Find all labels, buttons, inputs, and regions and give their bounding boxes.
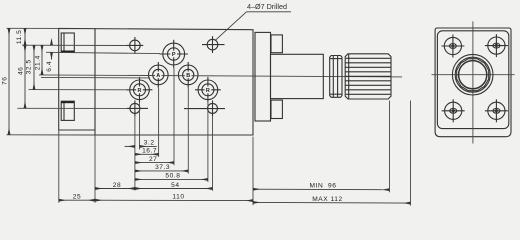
- dim 37.3: [135, 170, 188, 172]
- hole top-right: [202, 36, 225, 53]
- ext knob min: [389, 101, 391, 193]
- top edge ext to left: [7, 27, 59, 29]
- dim 6.4 arrows outside: [51, 40, 53, 45]
- bottom edge ext: [7, 134, 96, 136]
- svg-text:R: R: [138, 88, 142, 94]
- svg-text:28: 28: [113, 182, 121, 189]
- svg-text:76: 76: [2, 77, 9, 85]
- top tab: [271, 35, 282, 53]
- flange inner: [437, 31, 508, 129]
- label 4-dia7 drilled: [215, 2, 291, 41]
- ext line R row: [29, 89, 130, 91]
- vertical centerline: [472, 21, 474, 143]
- bolt hole BR: [485, 99, 508, 122]
- left dim texts: [2, 30, 54, 85]
- dim 27: [135, 162, 174, 164]
- ext R left: [139, 103, 141, 150]
- horizontal centerline: [432, 74, 515, 76]
- valve body cylinder: [271, 54, 324, 98]
- bottom tab: [271, 100, 282, 118]
- ext line P row: [46, 52, 160, 53]
- dim 50.8: [135, 178, 208, 180]
- END VIEW (right): [432, 21, 515, 143]
- ext hole col left: [134, 117, 136, 191]
- dim 110: [95, 199, 253, 201]
- dim 11.5: [24, 28, 26, 45]
- left vertical dimensions: [9, 28, 52, 134]
- dim 3.2: [125, 145, 135, 147]
- dim 25: [59, 199, 95, 201]
- dim 16.7: [135, 153, 159, 155]
- bolt hole TL: [441, 35, 464, 58]
- ext line hole row (11.5): [22, 44, 127, 46]
- hole bottom-right: [184, 100, 225, 116]
- hole top-left: [127, 37, 144, 54]
- SIDE VIEW: [255, 32, 391, 121]
- port labels: [138, 52, 210, 94]
- svg-text:MAX 112: MAX 112: [312, 196, 342, 203]
- svg-text:110: 110: [172, 194, 184, 201]
- bolt hole BL: [442, 99, 465, 122]
- ext knob max: [410, 101, 412, 206]
- center port boss: [452, 54, 493, 95]
- ext body left edge: [94, 135, 96, 203]
- svg-text:27: 27: [149, 156, 157, 163]
- svg-text:21.4: 21.4: [35, 55, 42, 70]
- port R right: [195, 77, 221, 103]
- mounting plate: [255, 32, 271, 121]
- bottom dimension lines: [59, 146, 411, 203]
- svg-text:16.7: 16.7: [142, 148, 157, 155]
- ext hole col right: [212, 117, 214, 191]
- axis centerline through A B and side view: [39, 75, 402, 77]
- port B: [178, 62, 198, 88]
- dim 46: [24, 45, 26, 108]
- svg-text:A: A: [156, 73, 160, 79]
- clamp bottom: [61, 101, 74, 120]
- bolt hole TR: [485, 34, 508, 57]
- ext B: [187, 88, 189, 174]
- dim MAX 112: [253, 201, 411, 204]
- port A: [149, 62, 169, 88]
- port R left: [127, 77, 153, 103]
- knob: [345, 54, 391, 99]
- dim MIN 96: [253, 188, 390, 191]
- lock nut: [330, 56, 342, 98]
- svg-text:MIN 96: MIN 96: [310, 182, 337, 189]
- bottom extension lines from ports: [59, 68, 411, 205]
- valve body outline (plan view): [59, 28, 253, 135]
- svg-text:54: 54: [171, 182, 179, 189]
- svg-text:50.8: 50.8: [165, 173, 180, 180]
- bottom dim texts: [73, 140, 343, 204]
- knob ribs: [346, 57, 391, 59]
- svg-text:R: R: [206, 88, 210, 94]
- svg-text:4–Ø7 Drilled: 4–Ø7 Drilled: [247, 2, 287, 11]
- ext R right: [207, 103, 209, 182]
- svg-text:25: 25: [73, 194, 81, 201]
- svg-text:46: 46: [17, 67, 24, 75]
- clamp top: [61, 33, 74, 52]
- ext line bottom hole row: [17, 107, 127, 109]
- dim 32.5: [33, 45, 35, 89]
- dim 21.4: [41, 45, 43, 74]
- port P: [160, 40, 188, 68]
- dim 54: [135, 188, 213, 190]
- second left line: [41, 76, 150, 79]
- svg-text:6.4: 6.4: [46, 61, 53, 72]
- hole bottom-left: [127, 100, 148, 116]
- flange outer: [435, 28, 511, 137]
- dim 28: [95, 188, 135, 190]
- svg-text:32.5: 32.5: [26, 59, 33, 74]
- subplate divider line: [94, 29, 96, 130]
- svg-text:B: B: [186, 73, 190, 79]
- svg-text:P: P: [172, 52, 176, 58]
- dim 76: [8, 28, 10, 134]
- ext strip left edge: [58, 130, 60, 203]
- svg-text:3.2: 3.2: [144, 140, 155, 147]
- svg-text:37.3: 37.3: [155, 164, 170, 171]
- svg-text:11.5: 11.5: [16, 30, 23, 45]
- ext P: [173, 68, 175, 165]
- ext A: [158, 88, 160, 157]
- ext body right edge: [252, 137, 254, 206]
